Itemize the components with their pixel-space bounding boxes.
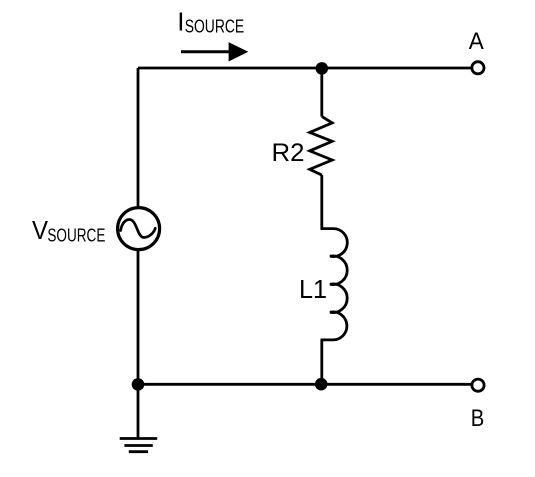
inductor L1 xyxy=(321,229,348,340)
wire top horizontal xyxy=(138,67,471,70)
svg-text:I: I xyxy=(177,6,184,36)
ground symbol xyxy=(120,439,158,452)
svg-text:B: B xyxy=(471,406,485,432)
wire middle branch top (junction to resistor) xyxy=(320,68,323,117)
svg-text:SOURCE: SOURCE xyxy=(47,225,105,246)
terminal A xyxy=(472,62,484,74)
terminal B xyxy=(472,379,484,391)
junction bottom middle xyxy=(315,378,328,391)
wire between resistor and inductor xyxy=(320,175,323,229)
svg-text:A: A xyxy=(469,29,484,55)
wire bottom horizontal xyxy=(138,383,471,386)
label V_SOURCE xyxy=(32,217,105,246)
ac source V_SOURCE xyxy=(118,208,160,250)
ground stem wire xyxy=(137,384,140,438)
wire middle branch bottom (inductor to junction) xyxy=(320,340,323,384)
svg-text:R2: R2 xyxy=(272,139,305,167)
junction bottom left xyxy=(132,378,145,391)
current direction arrow xyxy=(181,42,248,61)
svg-text:SOURCE: SOURCE xyxy=(185,16,245,37)
svg-text:L1: L1 xyxy=(299,276,327,304)
junction top (middle branch / top rail) xyxy=(316,62,329,75)
label I_SOURCE xyxy=(177,6,244,36)
svg-text:V: V xyxy=(32,217,48,245)
resistor R2 xyxy=(310,117,333,176)
wire left vertical (source branch) xyxy=(137,68,140,384)
